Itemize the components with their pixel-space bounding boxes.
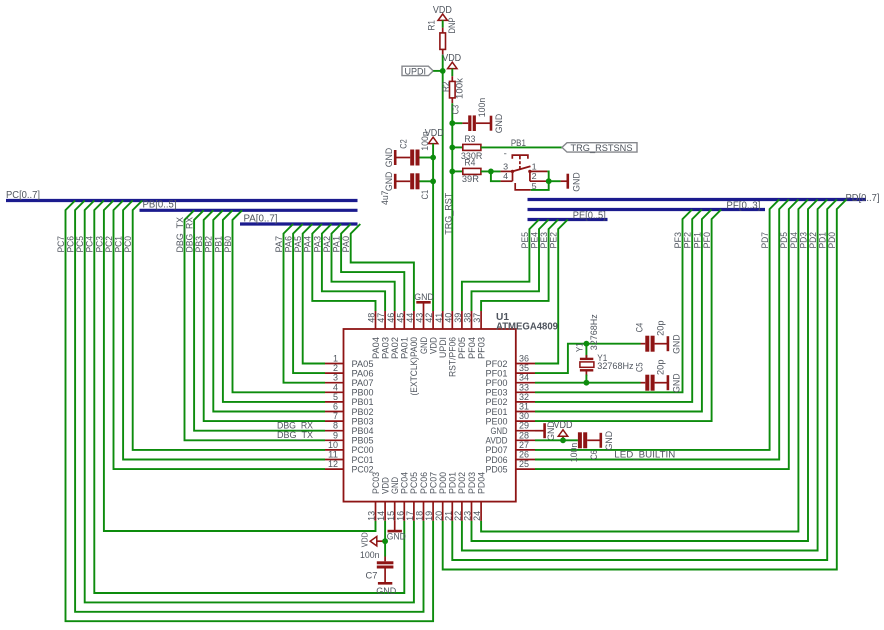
svg-text:PA6: PA6 — [284, 236, 294, 253]
ground GND (C2) — [384, 148, 410, 168]
svg-text:PC2: PC2 — [104, 236, 114, 253]
svg-text:32768Hz: 32768Hz — [597, 361, 634, 372]
U1 pin 17 (PC05) — [405, 472, 420, 521]
U1 pin 22 (PD02) — [453, 472, 468, 521]
svg-text:32: 32 — [519, 392, 529, 402]
svg-text:TRG_RSTSNS: TRG_RSTSNS — [571, 143, 633, 154]
wire pin14 VDD down — [384, 521, 386, 541]
svg-text:20p: 20p — [655, 320, 666, 336]
ground GND (pin 29) — [535, 421, 557, 441]
ground GND (above U1 pin 43) — [414, 292, 434, 311]
svg-text:100n: 100n — [360, 550, 380, 561]
junction C2 — [430, 155, 436, 161]
svg-text:PA7: PA7 — [274, 236, 284, 253]
svg-text:38: 38 — [463, 313, 473, 323]
svg-text:DBG_TX: DBG_TX — [175, 217, 185, 253]
svg-text:GND: GND — [571, 172, 582, 192]
svg-text:1: 1 — [333, 354, 338, 364]
wire net PD2 — [462, 200, 827, 551]
U1 pin 33 (PE03) — [486, 382, 536, 398]
svg-text:PE3: PE3 — [539, 232, 549, 249]
ground GND (C3) — [476, 114, 505, 134]
svg-text:GND: GND — [376, 586, 396, 597]
power VDD symbol (above C2) — [425, 128, 444, 144]
svg-text:41: 41 — [434, 313, 444, 323]
svg-text:17: 17 — [405, 511, 415, 521]
power VDD symbol (pin 14) — [361, 532, 386, 547]
svg-text:27: 27 — [519, 440, 529, 450]
svg-text:ATMEGA4809: ATMEGA4809 — [496, 321, 558, 333]
svg-text:31: 31 — [519, 402, 529, 412]
svg-text:25: 25 — [519, 459, 529, 469]
svg-text:6: 6 — [333, 402, 338, 412]
svg-text:PC0: PC0 — [123, 236, 133, 253]
wire net PC2 — [114, 201, 326, 470]
svg-text:PC3: PC3 — [94, 236, 104, 253]
wire net PE2 — [535, 220, 568, 364]
bus PB[0..5] — [140, 209, 358, 212]
svg-text:GND: GND — [384, 171, 395, 191]
svg-text:33: 33 — [519, 382, 529, 392]
svg-text:PB2: PB2 — [204, 236, 214, 253]
U1 pin 35 (PF01) — [486, 363, 536, 379]
U1 pin 8 (PB04) — [325, 421, 374, 437]
U1 pin 23 (PD03) — [463, 472, 478, 521]
wire net PE5 — [462, 220, 539, 312]
U1 pin 7 (PB03) — [325, 411, 374, 427]
bus PF[0..3] — [528, 208, 766, 211]
svg-text:PB1: PB1 — [213, 236, 223, 253]
svg-text:C4: C4 — [635, 323, 646, 333]
junction R3 — [449, 145, 455, 151]
svg-text:4: 4 — [333, 382, 338, 392]
ground GND (C6) — [587, 431, 615, 451]
wire net PA2 — [332, 224, 395, 311]
svg-text:35: 35 — [519, 363, 529, 373]
wire VDD to R1 — [442, 20, 444, 27]
svg-text:C1: C1 — [420, 190, 431, 200]
U1 pin 29 (GND) — [491, 421, 536, 437]
U1 pin 16 (PC04) — [395, 472, 410, 521]
U1 pin 40 (RST/PF06) — [443, 311, 458, 377]
U1 pin 41 (UPDI) — [434, 311, 449, 358]
svg-text:DBG_RX: DBG_RX — [277, 420, 313, 430]
U1 pin 9 (PB05) — [325, 430, 374, 446]
svg-text:VDD: VDD — [361, 532, 370, 547]
wire net PC4 — [94, 201, 404, 594]
wire net PB3 — [204, 210, 325, 421]
pushbutton PB1 (switch) — [501, 149, 548, 192]
svg-text:43: 43 — [415, 313, 425, 323]
resistor R2 100k — [441, 76, 466, 103]
crystal Y1 32768Hz — [575, 314, 634, 383]
svg-text:R2: R2 — [441, 82, 452, 93]
junction UPDI — [440, 68, 446, 74]
svg-text:13: 13 — [367, 511, 377, 521]
svg-text:PD[0..7]: PD[0..7] — [846, 193, 880, 204]
U1 pin 19 (PC07) — [424, 472, 439, 521]
resistor R1 (DNP) — [427, 18, 458, 55]
svg-text:PF3: PF3 — [673, 232, 683, 249]
bus PC[0..7] — [6, 199, 358, 202]
wire TRG_RST vertical (R2 to U1 pin 40) — [451, 103, 453, 311]
ground GND (switch) — [561, 172, 583, 192]
junction crystal bottom — [584, 380, 590, 386]
wire net PC0 — [133, 201, 325, 450]
svg-text:PA5: PA5 — [293, 236, 303, 253]
svg-text:PF[0..3]: PF[0..3] — [726, 200, 760, 211]
svg-text:40: 40 — [443, 313, 453, 323]
svg-text:24: 24 — [472, 511, 482, 521]
resistor R4 39R — [452, 157, 481, 185]
svg-text:PA1: PA1 — [332, 236, 342, 253]
svg-text:PF1: PF1 — [692, 232, 702, 249]
U1 pin 37 (PF03) — [472, 311, 487, 359]
bus PE[0..5] — [528, 218, 608, 221]
U1 pin 44 ((EXTCLK)PA00) — [405, 311, 420, 396]
wire net PB1 (to pin 5) — [223, 210, 325, 402]
wire net PA6 — [293, 224, 325, 373]
svg-text:29: 29 — [519, 421, 529, 431]
svg-text:LED_BUILTIN: LED_BUILTIN — [614, 450, 675, 460]
svg-text:3: 3 — [333, 373, 338, 383]
svg-text:48: 48 — [367, 313, 377, 323]
svg-text:44: 44 — [405, 313, 415, 323]
svg-text:GND: GND — [604, 431, 615, 451]
svg-text:28: 28 — [519, 430, 529, 440]
wire R1 to UPDI junction, down to U1 pin 41 — [442, 55, 444, 311]
U1 pin 15 (GND) — [386, 477, 401, 521]
wire VDD to R2 — [451, 69, 453, 77]
flag UPDI — [402, 66, 433, 77]
svg-text:PE[0..5]: PE[0..5] — [573, 210, 606, 221]
svg-text:PB0: PB0 — [223, 236, 233, 253]
svg-text:8: 8 — [333, 421, 338, 431]
U1 pin 6 (PB02) — [325, 402, 374, 418]
svg-text:PB1: PB1 — [511, 138, 526, 149]
U1 pin 5 (PB01) — [325, 392, 374, 408]
svg-text:PD4: PD4 — [789, 232, 799, 249]
svg-text:19: 19 — [424, 511, 434, 521]
svg-text:PE4: PE4 — [529, 232, 539, 249]
svg-text:PD3: PD3 — [798, 232, 808, 249]
wire net PD3 — [472, 200, 818, 542]
wire net PB1 (R3 to flag) — [481, 146, 562, 148]
capacitor C7 100n — [360, 541, 393, 581]
svg-text:46: 46 — [386, 313, 396, 323]
junction C1 — [430, 178, 436, 184]
svg-text:21: 21 — [443, 511, 453, 521]
svg-text:UPDI: UPDI — [405, 66, 427, 77]
svg-text:5: 5 — [333, 392, 338, 402]
ground GND (C7) — [376, 569, 396, 598]
ground GND (pin 15) — [387, 521, 406, 543]
power VDD symbol (pin 28) — [554, 420, 573, 440]
svg-text:100n: 100n — [477, 98, 488, 118]
wire net PA7 — [284, 224, 326, 383]
wire net PD6 / LED_BUILTIN — [535, 200, 789, 460]
junction C3 — [449, 120, 455, 126]
wire net PD5 — [535, 200, 798, 470]
svg-text:26: 26 — [519, 450, 529, 460]
svg-text:37: 37 — [472, 313, 482, 323]
svg-text:PD1: PD1 — [818, 232, 828, 249]
U1 pin 11 (PC01) — [325, 450, 374, 466]
wire net PD4 — [481, 200, 808, 532]
wire net PD7 — [535, 200, 779, 450]
svg-text:30: 30 — [519, 411, 529, 421]
svg-text:15: 15 — [386, 511, 396, 521]
svg-text:C2: C2 — [399, 139, 410, 149]
wire to switch pin 4 — [491, 171, 501, 181]
junction pin14/C7 — [382, 538, 388, 544]
svg-text:PC7: PC7 — [56, 236, 66, 253]
resistor R3 330R — [452, 134, 482, 162]
svg-text:100n: 100n — [569, 443, 580, 463]
power VDD symbol (above R2) — [442, 53, 461, 69]
svg-text:R3: R3 — [464, 134, 475, 145]
wire net DBG_TX — [185, 210, 326, 440]
svg-text:PB3: PB3 — [194, 236, 204, 253]
svg-text:DBG_RX: DBG_RX — [185, 217, 195, 253]
svg-text:32768Hz: 32768Hz — [589, 314, 600, 350]
svg-text:PA4: PA4 — [303, 236, 313, 253]
U1 pin 43 (GND) — [415, 311, 430, 354]
wire to GND — [549, 180, 561, 182]
svg-text:PA[0..7]: PA[0..7] — [244, 213, 278, 224]
junction switch GND — [546, 178, 552, 184]
wire pin35 to crystal/C4 row — [535, 344, 641, 373]
U1 pin 30 (PE00) — [486, 411, 536, 427]
U1 pin 3 (PA07) — [325, 373, 374, 389]
svg-text:Y1: Y1 — [575, 343, 586, 353]
bus PA[0..7] — [240, 222, 358, 225]
svg-text:PE2: PE2 — [549, 232, 559, 249]
U1 pin 36 (PF02) — [486, 354, 536, 370]
svg-text:C7: C7 — [366, 570, 378, 581]
svg-text:PC6: PC6 — [66, 236, 76, 253]
svg-text:23: 23 — [463, 511, 473, 521]
capacitor C4 20p — [635, 320, 667, 351]
svg-text:PD7: PD7 — [760, 232, 770, 249]
wire R4 to switch — [481, 170, 501, 172]
svg-text:PB[0..5]: PB[0..5] — [143, 200, 177, 211]
svg-text:PE5: PE5 — [520, 232, 530, 249]
svg-text:2: 2 — [333, 363, 338, 373]
wire switch pins 1/2 to GND — [547, 171, 548, 181]
svg-text:GND: GND — [494, 114, 505, 134]
svg-text:42: 42 — [424, 313, 434, 323]
svg-text:C6: C6 — [589, 450, 600, 460]
wire switch pin5 loop — [531, 181, 549, 190]
svg-text:4: 4 — [503, 171, 508, 181]
svg-text:PC4: PC4 — [85, 236, 95, 253]
svg-text:100k: 100k — [455, 78, 466, 99]
wire net PD1 — [452, 200, 837, 561]
wire net PC3 — [104, 201, 376, 532]
svg-text:GND: GND — [671, 373, 682, 393]
U1 pin 46 (PA02) — [386, 311, 401, 359]
U1 pin 2 (PA06) — [325, 363, 374, 379]
svg-text:10: 10 — [328, 440, 338, 450]
ground GND (C5) — [655, 373, 683, 393]
ground GND (C4) — [655, 334, 683, 354]
svg-text:14: 14 — [376, 511, 386, 521]
U1 pin 38 (PF04) — [463, 311, 478, 359]
svg-text:TRG_RST: TRG_RST — [443, 192, 453, 234]
svg-text:DBG_TX: DBG_TX — [277, 430, 313, 440]
svg-text:9: 9 — [333, 430, 338, 440]
wire pin34 row to C5 — [535, 382, 641, 384]
svg-text:20: 20 — [434, 511, 444, 521]
wire VDD net vertical (to U1 pin 42) — [432, 144, 434, 311]
svg-text:PF2: PF2 — [683, 232, 693, 249]
bus PD[0..7] — [528, 198, 867, 201]
svg-text:GND: GND — [387, 531, 406, 542]
svg-text:12: 12 — [328, 459, 338, 469]
U1 pin 48 (PA04) — [367, 311, 382, 359]
capacitor C6 100n — [569, 432, 600, 462]
wire net PE3 — [481, 220, 558, 312]
svg-text:20p: 20p — [655, 360, 666, 376]
svg-text:100n: 100n — [420, 131, 431, 151]
wire net PB2 — [213, 210, 325, 411]
U1 pin 31 (PE01) — [486, 402, 536, 418]
svg-text:PC[0..7]: PC[0..7] — [6, 190, 40, 201]
junction switch input — [488, 169, 494, 175]
wire net PF3 — [535, 210, 692, 393]
U1 pin 10 (PC00) — [325, 440, 374, 456]
wire net PF2 — [535, 210, 702, 402]
svg-text:GND: GND — [384, 148, 395, 168]
junction crystal top — [584, 341, 590, 347]
wire net PB0 — [233, 210, 326, 392]
capacitor C3 100n — [450, 98, 488, 131]
svg-text:36: 36 — [519, 354, 529, 364]
svg-text:PC5: PC5 — [75, 236, 85, 253]
capacitor C5 20p — [635, 360, 667, 391]
wire net DBG_RX — [194, 210, 325, 430]
U1 pin 24 (PD04) — [472, 472, 487, 521]
wire net PC7 — [66, 201, 434, 622]
U1 pin 26 (PD06) — [486, 450, 536, 466]
svg-text:PD5: PD5 — [779, 232, 789, 249]
svg-text:PC1: PC1 — [114, 236, 124, 253]
wire net PA1 — [341, 224, 404, 311]
power VDD symbol (top, above R1) — [433, 5, 452, 21]
wire net PF1 — [535, 210, 712, 412]
svg-text:47: 47 — [376, 313, 386, 323]
svg-text:PF03: PF03 — [476, 337, 487, 359]
svg-text:PD2: PD2 — [808, 232, 818, 249]
capacitor C2 100n — [399, 131, 433, 165]
U1 pin 12 (PC02) — [325, 459, 374, 475]
svg-text:PD05: PD05 — [486, 464, 508, 475]
svg-text:45: 45 — [395, 313, 405, 323]
U1 pin 25 (PD05) — [486, 459, 536, 475]
U1 pin 28 (AVDD) — [486, 430, 536, 446]
U1 pin 45 (PA01) — [395, 311, 410, 359]
wire net PF0 — [535, 210, 721, 422]
wire net PC1 — [123, 201, 325, 460]
svg-text:34: 34 — [519, 373, 529, 383]
svg-text:PD0: PD0 — [827, 232, 837, 249]
svg-text:39: 39 — [453, 313, 463, 323]
U1 pin 13 (PC03) — [367, 472, 382, 521]
wire net PA4 — [312, 224, 375, 311]
svg-text:22: 22 — [453, 511, 463, 521]
svg-text:4u7: 4u7 — [380, 191, 391, 206]
ground GND (C1) — [384, 171, 410, 191]
svg-text:18: 18 — [415, 511, 425, 521]
wire net PA0 — [351, 224, 414, 311]
wire net PA3 — [322, 224, 385, 311]
wire net PE4 — [472, 220, 549, 312]
IC U1 body (ATMEGA4809 rectangle) — [344, 329, 516, 502]
wire pin28 AVDD to C6 — [535, 439, 578, 441]
svg-text:R4: R4 — [464, 157, 475, 168]
U1 pin 47 (PA03) — [376, 311, 391, 359]
svg-text:PA0: PA0 — [341, 236, 351, 253]
U1 pin 20 (PD00) — [434, 472, 449, 521]
svg-text:1: 1 — [532, 161, 537, 171]
U1 pin 32 (PE02) — [486, 392, 536, 408]
U1 pin 4 (PB00) — [325, 382, 374, 398]
svg-text:3: 3 — [503, 161, 508, 171]
svg-text:16: 16 — [395, 511, 405, 521]
svg-text:PC02: PC02 — [352, 464, 374, 475]
U1 pin 14 (VDD) — [376, 477, 391, 521]
U1 pin 34 (PF00) — [486, 373, 536, 389]
U1 pin 1 (PA05) — [325, 354, 374, 370]
svg-text:PA2: PA2 — [322, 236, 332, 253]
svg-text:R1: R1 — [427, 20, 438, 31]
capacitor C1 4u7 — [380, 173, 433, 205]
svg-text:2: 2 — [532, 171, 537, 181]
svg-text:39R: 39R — [462, 174, 479, 185]
svg-text:PF0: PF0 — [702, 232, 712, 249]
svg-text:PA3: PA3 — [312, 236, 322, 253]
wire net PA5 — [303, 224, 325, 364]
svg-text:11: 11 — [328, 450, 338, 460]
junction R4 — [449, 169, 455, 175]
svg-text:DNP: DNP — [447, 18, 458, 34]
wire UPDI flag to net — [433, 70, 443, 72]
svg-text:C5: C5 — [635, 363, 646, 373]
wire net PC6 — [75, 201, 423, 612]
svg-text:-: - — [504, 149, 507, 160]
svg-text:GND: GND — [671, 334, 682, 354]
U1 pin 39 (PF05) — [453, 311, 468, 359]
U1 pin 21 (PD01) — [443, 472, 458, 521]
junction AVDD — [560, 437, 566, 443]
U1 pin 42 (VDD) — [424, 311, 439, 354]
svg-text:C3: C3 — [450, 105, 461, 115]
wire net PD0 — [443, 200, 847, 570]
wire net PC5 — [85, 201, 414, 603]
svg-text:7: 7 — [333, 411, 338, 421]
U1 pin 27 (PD07) — [486, 440, 536, 456]
U1 pin 18 (PC06) — [415, 472, 430, 521]
flag TRG_RSTSNS — [562, 143, 637, 154]
